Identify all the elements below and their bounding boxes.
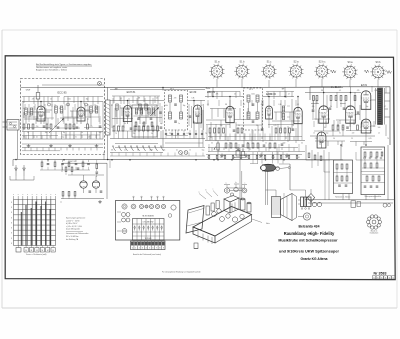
under-bus parts row left	[40, 160, 90, 170]
svg-text:Netz: Netz	[266, 222, 270, 225]
speaker output transformer	[298, 197, 311, 209]
rotary switch wafer S1 a	[209, 61, 224, 80]
svg-text:10k: 10k	[233, 157, 236, 159]
svg-text:0,5: 0,5	[59, 108, 61, 110]
svg-text:47k: 47k	[312, 106, 315, 108]
AM oscillator box interior	[134, 108, 157, 130]
grid chart top arrows	[13, 194, 56, 200]
svg-text:0,25: 0,25	[273, 125, 276, 127]
bridge rectifier diamond	[307, 189, 321, 207]
svg-text:EZ 81: EZ 81	[361, 85, 368, 87]
svg-text:8µ: 8µ	[63, 132, 65, 134]
AM extra caps row	[165, 130, 203, 139]
svg-text:250: 250	[315, 138, 318, 140]
svg-text:RV = 10 MOhm: RV = 10 MOhm	[66, 236, 79, 238]
svg-text:8: 8	[11, 222, 12, 224]
svg-text:1n: 1n	[178, 123, 180, 125]
bottom note text	[162, 271, 201, 274]
UKW tuner dashed enclosure	[21, 79, 105, 155]
left small parts column	[96, 160, 99, 177]
svg-text:220: 220	[220, 157, 223, 159]
rotary switch wafer S3 b	[370, 61, 385, 80]
label EBF 89	[207, 91, 216, 94]
svg-text:10n: 10n	[324, 127, 327, 129]
svg-text:8: 8	[11, 233, 12, 235]
mains voltage selector box	[361, 147, 385, 198]
svg-text:50: 50	[333, 138, 335, 140]
svg-text:1k: 1k	[189, 150, 191, 152]
svg-text:470: 470	[77, 108, 80, 110]
svg-text:2 x EL 84: 2 x EL 84	[331, 87, 341, 89]
wire top HT rail	[21, 79, 379, 90]
section labels speckle top	[26, 87, 285, 92]
svg-text:8k: 8k	[259, 157, 261, 159]
IF transformer can T2 dashed	[244, 88, 263, 130]
tuner resistors cluster	[23, 124, 101, 129]
Graetz flower logo	[367, 215, 382, 235]
svg-text:6,8k: 6,8k	[192, 98, 195, 100]
tweeter drawing	[298, 213, 311, 220]
svg-text:30p: 30p	[270, 94, 273, 96]
svg-text:6: 6	[153, 248, 154, 250]
rear panel outline	[116, 201, 180, 241]
svg-text:25k: 25k	[163, 150, 166, 152]
svg-text:250: 250	[36, 126, 39, 128]
tube V12 driver lower left	[317, 132, 326, 148]
svg-text:500: 500	[99, 132, 102, 134]
svg-text:4,7: 4,7	[288, 94, 290, 96]
ratio detector coils	[262, 99, 292, 131]
svg-text:470: 470	[174, 98, 177, 100]
power section wiring	[305, 145, 395, 207]
svg-text:8: 8	[11, 217, 12, 219]
detector resistor cluster	[209, 128, 294, 140]
ferrite antenna L10	[106, 88, 111, 136]
rear panel connector block	[133, 219, 165, 241]
svg-text:0,1: 0,1	[36, 137, 38, 139]
svg-text:1n: 1n	[265, 143, 267, 145]
svg-text:4,7: 4,7	[384, 106, 386, 108]
svg-text:100k: 100k	[347, 106, 351, 108]
AF output enclosure box	[310, 87, 390, 145]
svg-text:a) 220 V ~ 50 Hz: a) 220 V ~ 50 Hz	[66, 220, 80, 222]
svg-text:S1 c: S1 c	[267, 61, 273, 64]
svg-text:1n: 1n	[81, 132, 83, 134]
svg-text:0,5: 0,5	[339, 90, 341, 92]
svg-text:8: 8	[11, 243, 12, 245]
svg-text:25: 25	[351, 138, 353, 140]
detector ground symbols	[220, 154, 289, 158]
svg-text:30p: 30p	[86, 99, 89, 101]
wiring mesh second pass	[22, 98, 374, 136]
svg-text:70: 70	[205, 133, 207, 135]
svg-text:3n: 3n	[207, 157, 209, 159]
svg-text:50: 50	[54, 126, 56, 128]
svg-text:1n: 1n	[360, 127, 362, 129]
svg-text:2k: 2k	[147, 105, 149, 107]
wire drops to rear panel	[104, 152, 110, 168]
rear panel label row	[142, 215, 154, 218]
trimmer capacitor C2 at tuner top	[36, 85, 104, 104]
volume potentiometer	[214, 143, 219, 150]
phono preamp stage	[61, 161, 107, 204]
tube V1 ECC85 triode a	[37, 106, 45, 121]
svg-text:70: 70	[387, 138, 389, 140]
tube V9 EL84 output 2	[346, 106, 356, 123]
svg-text:b: b	[236, 182, 237, 184]
svg-text:6,8k: 6,8k	[375, 90, 378, 92]
svg-text:UKW: UKW	[26, 90, 31, 92]
svg-text:2k: 2k	[50, 99, 52, 101]
svg-text:0,1: 0,1	[120, 98, 122, 100]
svg-text:0,1: 0,1	[298, 157, 300, 159]
svg-text:50µ: 50µ	[62, 137, 65, 139]
svg-text:1,5: 1,5	[378, 133, 380, 135]
svg-text:1,5: 1,5	[124, 150, 126, 152]
svg-text:8k: 8k	[137, 150, 139, 152]
rotary switch wafer S1 c	[261, 61, 276, 80]
label ECH 81	[127, 91, 136, 94]
svg-text:ECC 85: ECC 85	[57, 91, 67, 95]
svg-text:Für störungsfreien Empfang nur: Für störungsfreien Empfang nur Original-…	[162, 271, 201, 274]
tuner coil L6	[95, 106, 98, 113]
svg-text:70: 70	[115, 133, 117, 135]
label EZ 81	[361, 85, 368, 87]
tube V2 ECC85 triode b	[77, 107, 85, 121]
svg-text:1,5: 1,5	[246, 157, 248, 159]
svg-text:5k: 5k	[27, 132, 29, 134]
svg-text:ECH 81: ECH 81	[127, 91, 136, 94]
svg-text:470: 470	[261, 104, 264, 106]
rotary switch wafer S2 b c	[314, 61, 329, 80]
rear panel caption	[133, 253, 161, 256]
wires panel top pins	[133, 196, 164, 200]
tuner coil L5	[90, 106, 93, 113]
svg-text:a: a	[226, 183, 227, 185]
svg-text:0,5: 0,5	[243, 104, 245, 106]
svg-text:30p: 30p	[366, 106, 369, 108]
tuner box interior extra	[24, 104, 101, 124]
svg-text:250: 250	[220, 125, 223, 127]
drawing number Nr 3583	[372, 271, 395, 279]
svg-text:8: 8	[11, 228, 12, 230]
svg-text:TA TB GRA MS: TA TB GRA MS	[142, 215, 154, 218]
svg-text:100k: 100k	[164, 105, 168, 107]
svg-text:3: 3	[142, 248, 143, 250]
svg-text:0,1: 0,1	[297, 104, 299, 106]
svg-text:4,7: 4,7	[111, 105, 113, 107]
svg-text:S2 b c: S2 b c	[319, 61, 327, 64]
svg-text:7: 7	[156, 248, 157, 250]
tuning gang capacitor	[150, 106, 159, 116]
tuner lower rail with ticks	[22, 148, 103, 155]
parts list small text	[66, 218, 89, 241]
svg-text:c) Uf = 6,3 V / 1,9 A: c) Uf = 6,3 V / 1,9 A	[66, 225, 82, 228]
AM section wiring	[108, 88, 205, 160]
svg-text:6,8k: 6,8k	[279, 104, 282, 106]
tube V6 demodulator diode section	[266, 106, 273, 119]
svg-text:500: 500	[283, 143, 286, 145]
title Graetz KG Altena	[301, 257, 328, 261]
rotary switch wafer S1 b	[234, 61, 249, 80]
rear panel left sockets	[117, 212, 130, 233]
IF transformer can T1 dashed	[165, 91, 188, 131]
svg-text:25k: 25k	[285, 157, 288, 159]
svg-text:47k: 47k	[32, 99, 35, 101]
svg-text:0,1: 0,1	[176, 150, 178, 152]
svg-text:10n: 10n	[45, 132, 48, 134]
title Raumklang High-Fidelity	[284, 231, 335, 236]
svg-text:Trenn- u. Richtwerte (mA): Trenn- u. Richtwerte (mA)	[26, 253, 47, 256]
svg-text:10k: 10k	[365, 133, 368, 135]
svg-text:Raumklang -High- Fidelity: Raumklang -High- Fidelity	[284, 231, 335, 236]
EM80 remote indicator horizontal	[260, 164, 290, 190]
svg-text:220: 220	[88, 137, 91, 139]
wafer resistor squiggle S3b	[364, 70, 392, 74]
rear panel terminal strip	[131, 241, 166, 250]
antenna selector lower left	[10, 165, 34, 180]
svg-text:1k: 1k	[49, 137, 51, 139]
svg-text:Angaben über Schaltbild u. Tei: Angaben über Schaltbild u. Teilliste	[36, 68, 68, 71]
AM oscillator sub-box	[132, 105, 157, 137]
svg-text:8µ: 8µ	[160, 123, 162, 125]
svg-text:25: 25	[256, 125, 258, 127]
tuner extra verticals	[23, 102, 103, 140]
wafer resistor squiggle S2bc	[330, 70, 336, 73]
title Belcanto 434	[299, 224, 320, 228]
volume control assembly above pulleys	[234, 148, 246, 158]
svg-text:10k: 10k	[111, 150, 114, 152]
value labels speckle 2	[23, 133, 380, 159]
svg-text:0,25: 0,25	[186, 133, 189, 135]
AM mid verticals extra	[112, 100, 204, 130]
svg-text:10n: 10n	[142, 123, 145, 125]
svg-text:Nr 3583: Nr 3583	[374, 271, 387, 275]
junction dots	[15, 87, 367, 161]
speaker wiring	[250, 152, 306, 197]
svg-text:6,8k: 6,8k	[95, 108, 98, 110]
svg-text:a: a	[199, 192, 200, 194]
svg-text:8: 8	[11, 207, 12, 209]
svg-text:Spannungen gemessen:: Spannungen gemessen:	[66, 218, 86, 220]
wiring mesh upper band	[22, 92, 372, 152]
rotary switch wafer S3 a	[342, 61, 357, 80]
svg-text:2k: 2k	[330, 106, 332, 108]
component value labels speckle	[23, 90, 389, 145]
svg-text:AM: AM	[115, 88, 118, 91]
svg-text:3n: 3n	[75, 137, 77, 139]
tube V3 ECH81 mixer	[123, 106, 131, 122]
tube V10 upper right	[361, 91, 371, 110]
detector wiring	[205, 87, 305, 159]
svg-text:25k: 25k	[23, 137, 26, 139]
voltage table grid chart	[14, 200, 56, 246]
power supply box Tr1	[334, 160, 353, 198]
title und 9/10 Kreis UKW Spitzensuper	[279, 250, 339, 254]
label EABC 80	[266, 93, 277, 96]
rear panel sockets top row	[122, 204, 176, 217]
svg-text:2k: 2k	[234, 94, 236, 96]
svg-text:5: 5	[149, 248, 150, 250]
tube V8 EL84 output 1	[319, 106, 329, 123]
grid chart connector row	[16, 246, 55, 253]
chassis callout lines	[199, 189, 270, 226]
svg-text:30p: 30p	[183, 105, 186, 107]
antenna input socket	[3, 120, 20, 160]
svg-text:50µ: 50µ	[326, 133, 329, 135]
svg-text:0,25: 0,25	[368, 138, 371, 140]
tuner coil L2	[30, 108, 33, 115]
detector mid resistor row 2	[206, 155, 302, 159]
header note text block	[36, 63, 92, 71]
AM band switch contacts	[110, 146, 164, 153]
svg-text:EBF 89: EBF 89	[207, 91, 216, 94]
svg-text:ZF 1: ZF 1	[170, 89, 174, 91]
svg-text:50µ: 50µ	[202, 150, 205, 152]
tube V4 EF89 IF amp	[193, 105, 201, 123]
lower band extra parts	[306, 145, 330, 172]
svg-text:47k: 47k	[216, 94, 219, 96]
label EL 84 I	[331, 87, 341, 89]
svg-text:Belcanto 434: Belcanto 434	[299, 224, 320, 228]
svg-text:470: 470	[357, 90, 360, 92]
svg-text:8: 8	[159, 248, 160, 250]
pilot lamps pair	[179, 151, 188, 155]
title Musiktruhe mit Schallkompressor	[278, 239, 338, 243]
svg-text:8µ: 8µ	[247, 143, 249, 145]
svg-text:100k: 100k	[251, 94, 255, 96]
svg-text:1k: 1k	[313, 133, 315, 135]
svg-text:0,1: 0,1	[207, 104, 209, 106]
svg-text:d) am Messpunkt: d) am Messpunkt	[66, 228, 80, 231]
grid chart caption	[26, 253, 47, 256]
wire main chassis bus	[13, 160, 343, 167]
svg-text:LTS LSB UKW: LTS LSB UKW	[143, 222, 154, 224]
svg-text:0,1: 0,1	[23, 108, 25, 110]
svg-text:S1 a: S1 a	[215, 61, 221, 64]
tuner wiring	[22, 102, 103, 140]
svg-text:bei Stellung TA: bei Stellung TA	[66, 238, 79, 241]
svg-text:8: 8	[11, 202, 12, 204]
svg-text:500: 500	[378, 127, 381, 129]
svg-text:Graetz KG Altena: Graetz KG Altena	[301, 257, 328, 261]
schematic border frame	[5, 56, 395, 280]
tuner coil L4	[60, 106, 63, 113]
tuner ground symbols	[22, 144, 103, 148]
svg-text:ZF 2: ZF 2	[249, 89, 253, 91]
loudspeaker drawing	[272, 194, 297, 221]
rotary switch wafer S2 a	[288, 61, 303, 80]
output transformer Tr2 hatched	[376, 88, 391, 125]
svg-text:a: a	[22, 194, 23, 196]
svg-text:50: 50	[238, 125, 240, 127]
svg-text:250: 250	[133, 133, 136, 135]
svg-text:70: 70	[292, 125, 294, 127]
svg-text:a: a	[50, 194, 51, 196]
svg-text:b) UB = 250 V: b) UB = 250 V	[66, 223, 78, 225]
svg-text:a: a	[36, 194, 37, 196]
tube V5 EBF89	[226, 106, 234, 122]
chassis parts on deck	[206, 196, 251, 223]
grid chart row labels	[11, 202, 12, 245]
AM lower rail 2	[110, 153, 205, 157]
svg-text:220: 220	[352, 133, 355, 135]
svg-text:S2 a: S2 a	[294, 61, 300, 64]
svg-text:50: 50	[151, 133, 153, 135]
wire drops to chassis and speaker	[240, 160, 290, 205]
svg-text:S3 b: S3 b	[376, 61, 382, 64]
svg-text:47k: 47k	[129, 105, 132, 107]
dial cord pulley diagram	[224, 182, 247, 196]
detector extra verticals band	[207, 86, 386, 152]
label ECC 85	[57, 91, 67, 95]
output stage resistors	[312, 96, 360, 131]
svg-text:500: 500	[196, 123, 199, 125]
svg-text:5k: 5k	[301, 143, 303, 145]
svg-text:4,7: 4,7	[201, 105, 203, 107]
svg-text:8µ: 8µ	[342, 127, 344, 129]
AM resistor cluster 1	[113, 126, 162, 131]
svg-text:Ratio: Ratio	[206, 87, 210, 90]
tuner coil L1	[25, 108, 28, 115]
tube V11 lower right	[361, 119, 371, 133]
svg-text:Gemessen mit Röhrenvoltm.: Gemessen mit Röhrenvoltm.	[66, 232, 89, 235]
label EF 89	[190, 91, 197, 94]
svg-text:Bei Nachbestellung stets Typen: Bei Nachbestellung stets Typen- u. Gerät…	[36, 63, 92, 66]
svg-text:10n: 10n	[229, 143, 232, 145]
detector lower resistor row	[225, 143, 283, 148]
tuner tuning arrow	[49, 118, 64, 133]
svg-text:Ansicht der Rückwand (von hint: Ansicht der Rückwand (von hinten)	[133, 253, 161, 256]
svg-text:3n: 3n	[339, 133, 341, 135]
svg-text:S1 b: S1 b	[240, 61, 246, 64]
svg-text:b: b	[206, 190, 207, 192]
svg-text:Netzspannungswähler: Netzspannungswähler	[365, 195, 382, 198]
svg-text:8: 8	[11, 212, 12, 214]
svg-text:8: 8	[11, 238, 12, 240]
dial lamp at tuner top	[98, 82, 102, 86]
tuner coil L3	[55, 106, 58, 113]
svg-text:c: c	[245, 183, 246, 185]
output stage wiring	[305, 87, 386, 145]
svg-text:0,5: 0,5	[156, 98, 158, 100]
svg-text:Kostbarkeit: Kostbarkeit	[370, 232, 379, 235]
svg-text:Musiktruhe mit Schallkompresso: Musiktruhe mit Schallkompressor	[278, 239, 338, 243]
svg-text:und 9/10Kreis UKW Spitzensuper: und 9/10Kreis UKW Spitzensuper	[279, 250, 339, 254]
svg-text:1: 1	[135, 248, 136, 250]
svg-text:100k: 100k	[67, 99, 71, 101]
svg-text:0: 0	[132, 248, 133, 250]
svg-text:0,25: 0,25	[89, 126, 92, 128]
svg-text:5k: 5k	[211, 143, 213, 145]
oscillator coil pack	[116, 104, 147, 110]
svg-text:EC 92: EC 92	[70, 161, 75, 163]
svg-text:5k: 5k	[124, 123, 126, 125]
svg-text:25: 25	[72, 126, 74, 128]
svg-text:EF 89: EF 89	[190, 91, 197, 94]
svg-text:S3 a: S3 a	[348, 61, 354, 64]
tube V7 EABC80	[294, 107, 302, 123]
chassis perspective outline	[186, 206, 252, 249]
svg-text:9: 9	[163, 248, 164, 250]
svg-text:25: 25	[169, 133, 171, 135]
svg-text:4: 4	[146, 248, 147, 250]
svg-text:2: 2	[139, 248, 140, 250]
